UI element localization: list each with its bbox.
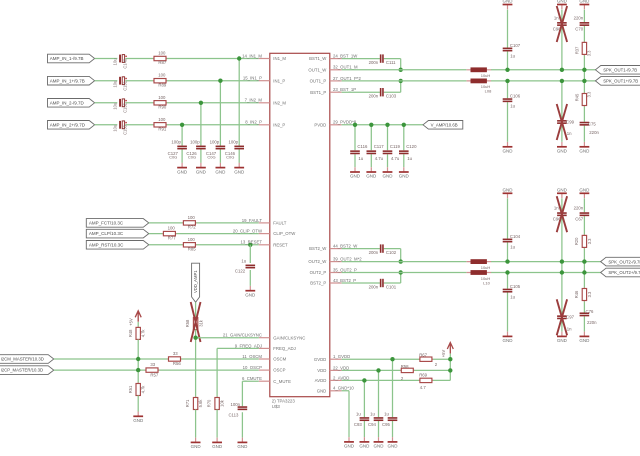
svg-text:I2CM_MASTER/10.3D: I2CM_MASTER/10.3D (1, 357, 44, 362)
svg-text:4.7u: 4.7u (375, 156, 384, 161)
svg-text:1u: 1u (510, 245, 515, 250)
pin 19_FAULT (242, 218, 287, 226)
svg-text:1u: 1u (407, 156, 412, 161)
svg-text:10u: 10u (113, 81, 118, 88)
svg-text:AMP_FCT/10.3C: AMP_FCT/10.3C (89, 221, 124, 226)
svg-text:AMP_IN_2-/9.7D: AMP_IN_2-/9.7D (50, 100, 85, 105)
wire C93 column (363, 380, 365, 437)
junction OUT2_P junction x584.4 (582, 270, 586, 274)
ground GND top ch1 x507.5 (503, 0, 514, 9)
svg-text:C101: C101 (386, 285, 397, 290)
ground GND top ch2 x584.4 (579, 187, 590, 198)
resistor R91 100 (153, 117, 167, 132)
svg-text:100p: 100p (190, 140, 200, 145)
svg-text:SPK_OUT2-/9.7D: SPK_OUT2-/9.7D (608, 259, 640, 264)
resistor R72 100 (182, 215, 196, 230)
svg-text:OUT1_W: OUT1_W (308, 67, 327, 72)
svg-text:BST2_W: BST2_W (309, 246, 327, 251)
ground GND under pin 4 (344, 437, 355, 449)
supply +5V arrow (I2C pullup) (128, 311, 141, 326)
svg-text:C119: C119 (390, 144, 401, 149)
svg-text:1u: 1u (358, 156, 363, 161)
svg-text:R37: R37 (575, 46, 580, 54)
svg-text:4.7: 4.7 (420, 385, 427, 390)
svg-text:C0G: C0G (188, 155, 196, 160)
resistor R48 4.7k (128, 326, 146, 340)
wire BST net C101 (342, 273, 401, 284)
ground GND under C113 (237, 438, 248, 450)
ground GND under C127 (177, 163, 188, 175)
capacitor C119 4.7u (383, 144, 401, 161)
wire AMP_IN_2+/9.7D (95, 125, 259, 163)
svg-text:15_IN1_P: 15_IN1_P (243, 76, 262, 81)
junction OSCM junction (136, 357, 140, 361)
svg-text:200n: 200n (369, 60, 379, 65)
pin 9_FREQ_ADJ (235, 343, 296, 351)
svg-text:100: 100 (158, 51, 166, 56)
wire VDD net (342, 369, 451, 371)
junction C101 junction (399, 270, 403, 274)
svg-text:AMP_IN_1+/9.7B: AMP_IN_1+/9.7B (50, 78, 85, 83)
svg-text:R48: R48 (128, 329, 133, 337)
resistor R77 100 (162, 226, 176, 241)
capacitor C146 100p (225, 140, 244, 160)
pin 4_GND*10 (317, 386, 355, 394)
svg-text:2: 2 (435, 362, 438, 367)
ground GND bottom ch2 x584.4 (579, 332, 590, 344)
pin 14_IN1_M (242, 53, 286, 61)
svg-text:OUT1_P: OUT1_P (310, 79, 327, 84)
junction OUT1_P junction x507.5 (505, 79, 509, 83)
pin 6_CMUTE (242, 376, 291, 384)
svg-text:+5V: +5V (441, 350, 446, 358)
ground GND under C117 (366, 167, 377, 179)
svg-text:C120: C120 (406, 144, 417, 149)
svg-text:C_MUTE: C_MUTE (273, 379, 291, 384)
capacitor C95 1u (382, 412, 397, 427)
svg-text:IN1_M: IN1_M (273, 56, 286, 61)
capacitor C93 1u (354, 412, 369, 427)
svg-text:R89: R89 (158, 82, 166, 87)
svg-text:AMP_IN_1-/9.7B: AMP_IN_1-/9.7B (50, 56, 84, 61)
svg-text:33: 33 (173, 351, 178, 356)
resistor R58 31k (DNP) (185, 317, 203, 331)
svg-text:IN2_P: IN2_P (273, 122, 285, 127)
svg-text:GND: GND (317, 388, 327, 393)
svg-text:1u: 1u (241, 258, 246, 263)
svg-text:C107: C107 (510, 43, 521, 48)
wire BST net C102 (342, 249, 401, 262)
svg-text:AMP_IN_2+/9.7D: AMP_IN_2+/9.7D (50, 122, 86, 127)
capacitor C152 10u (113, 99, 128, 113)
flag AMP_IN_2+/9.7D (48, 121, 95, 130)
wire C96 column (561, 198, 563, 272)
capacitor C107 1u (503, 43, 521, 58)
svg-text:C94: C94 (368, 422, 376, 427)
svg-text:FREQ_ADJ: FREQ_ADJ (273, 346, 295, 351)
svg-text:10u: 10u (113, 125, 118, 132)
svg-text:I2CP_MASTER/10.3D: I2CP_MASTER/10.3D (1, 368, 44, 373)
resistor R57 33 (145, 362, 159, 377)
wire GAIN net (196, 338, 259, 398)
svg-text:AVDD: AVDD (315, 378, 327, 383)
junction PVDD junction C116 (353, 123, 357, 127)
ground GND under R70 (212, 438, 223, 450)
junction OUT2_M junction x561.9 (560, 259, 564, 263)
DNP cross over C96 (557, 196, 567, 232)
svg-text:C116: C116 (357, 144, 368, 149)
wire C105 column (507, 273, 509, 332)
capacitor C106 1u (503, 93, 521, 108)
wire C97 column (561, 273, 563, 332)
pin 32_OUT1_M (308, 65, 358, 73)
pin 35_OUT2_P (310, 267, 357, 275)
junction OUT1_P junction x584.4 (582, 79, 586, 83)
junction PVDD junction C120 (402, 123, 406, 127)
svg-text:C105: C105 (510, 284, 521, 289)
svg-text:220n: 220n (587, 320, 597, 325)
svg-text:43_BST2_P: 43_BST2_P (333, 278, 356, 283)
svg-text:R85: R85 (188, 247, 196, 252)
pin 2_AVDD (315, 375, 350, 383)
svg-text:AMP_CLP/10.3C: AMP_CLP/10.3C (89, 231, 124, 236)
svg-text:220n: 220n (574, 206, 584, 211)
wire OSCM (54, 358, 259, 360)
capacitor C122 1u (235, 258, 255, 273)
junction RESET junction (248, 243, 252, 247)
svg-text:IN2_M: IN2_M (273, 100, 286, 105)
capacitor C113 100n (228, 402, 247, 417)
capacitor C147 100p (206, 140, 225, 160)
svg-text:5.6k: 5.6k (198, 399, 203, 408)
wire R58 to GAIN net (195, 329, 197, 337)
svg-text:10_OSCP: 10_OSCP (243, 365, 262, 370)
wire AVDD net (342, 379, 451, 381)
svg-text:R46: R46 (574, 290, 579, 298)
wire OUT2_P (342, 272, 601, 274)
wire C95 column (392, 359, 394, 437)
wire C104 column (507, 198, 509, 261)
wire C70-R37 column (583, 10, 585, 142)
resistor R71 5.6k (185, 397, 203, 411)
svg-text:4.7k: 4.7k (141, 385, 146, 394)
pin 15_IN1_P (243, 76, 286, 84)
svg-text:IN1_P: IN1_P (273, 78, 285, 83)
svg-text:R58: R58 (401, 364, 409, 369)
ground GND top ch2 x507.5 (503, 187, 514, 198)
svg-text:C113: C113 (228, 413, 239, 418)
junction C111 junction (399, 68, 403, 72)
svg-text:V_AMP/10.6B: V_AMP/10.6B (431, 123, 458, 128)
capacitor C67 220n (574, 206, 590, 222)
capacitor C98 1n (DNP) (553, 15, 567, 31)
supply +5V arrow (VDD rail) (441, 343, 453, 358)
svg-text:R70: R70 (207, 399, 212, 407)
wire R71 to GND (195, 409, 197, 437)
wire GVDD net (342, 358, 451, 360)
svg-text:C148: C148 (122, 58, 127, 69)
svg-text:C97: C97 (566, 315, 574, 320)
svg-text:1u: 1u (384, 412, 389, 417)
resistor R37 3.3 (575, 41, 592, 56)
wire AMP_FCT/10.3C (149, 222, 259, 224)
capacitor C70 220n (574, 15, 590, 31)
resistor R45 3.3 (575, 91, 592, 107)
svg-text:R87: R87 (158, 60, 166, 65)
svg-text:R51: R51 (128, 385, 133, 393)
svg-text:VDD: VDD (317, 368, 326, 373)
svg-text:C0G: C0G (226, 155, 234, 160)
resistor R51 4.7k (128, 383, 146, 397)
wire C107 column (507, 10, 509, 70)
svg-text:100p: 100p (210, 140, 220, 145)
flag AMP_RST/10.3C (86, 241, 149, 250)
capacitor C117 4.7u (367, 144, 385, 161)
svg-text:3.3: 3.3 (587, 50, 592, 56)
resistor R69 4.7 (419, 373, 433, 391)
capacitor C120 1u (399, 144, 417, 161)
svg-text:CLIP_OTW: CLIP_OTW (273, 231, 296, 236)
svg-text:C153: C153 (122, 124, 127, 135)
svg-text:1_GVDD: 1_GVDD (333, 354, 350, 359)
wire C94 column (378, 370, 380, 437)
junction OUT2_P junction x561.9 (560, 270, 564, 274)
wire R48-R51 vertical (137, 339, 139, 383)
junction OUT1_M junction x507.5 (505, 68, 509, 72)
pin 27_OUT1_P*2 (310, 76, 362, 84)
flag SPK_OUT2-/9.7D (601, 257, 640, 266)
pin 21_GAIN/CLKSYNC (223, 333, 305, 341)
capacitor C99 1n (DNP) (557, 119, 574, 136)
wire RESET to C122 (249, 245, 251, 286)
svg-text:35_OUT2_P: 35_OUT2_P (333, 267, 357, 272)
ground GND top ch2 x561.9 (557, 187, 568, 198)
svg-text:220n: 220n (574, 15, 584, 20)
wire CMUTE net (242, 381, 258, 437)
svg-text:8_IN2_P: 8_IN2_P (245, 120, 262, 125)
svg-text:C102: C102 (386, 250, 397, 255)
svg-text:1n: 1n (554, 15, 559, 20)
capacitor C127 100p (168, 140, 187, 160)
svg-text:100: 100 (168, 226, 176, 231)
svg-text:33: 33 (150, 362, 155, 367)
svg-text:RESET: RESET (273, 242, 288, 247)
wire OUT2_M (342, 261, 601, 263)
pin 20_CLIP_OTW (233, 229, 296, 237)
junction OUT1_M junction x584.4 (582, 68, 586, 72)
pin 24_BST_1W (309, 54, 358, 62)
junction C95 junction (390, 357, 394, 361)
pin 1_GVDD (314, 354, 350, 362)
svg-text:21_GAIN/CLKSYNC: 21_GAIN/CLKSYNC (223, 333, 262, 338)
pin 23_BST_1P (310, 87, 356, 95)
wire AMP_IN_1-/9.7B (95, 59, 259, 163)
junction C93 junction (362, 378, 366, 382)
ground GND top ch1 x584.4 (579, 0, 590, 9)
junction C103 junction (399, 79, 403, 83)
svg-text:11_OSCM: 11_OSCM (242, 354, 262, 359)
ground GND under C120 (399, 167, 410, 179)
svg-text:100n: 100n (230, 402, 240, 407)
flag VDD_AMP1 (192, 263, 200, 302)
capacitor C94 1u (368, 412, 383, 427)
capacitor C151 10u (113, 77, 128, 91)
svg-text:10u: 10u (113, 58, 118, 65)
wire OSCP (54, 369, 259, 371)
pin 22_VDD (317, 365, 349, 373)
svg-text:C111: C111 (386, 60, 396, 65)
svg-text:4_GND*10: 4_GND*10 (333, 386, 354, 391)
junction OUT1_P junction x561.9 (560, 79, 564, 83)
flag AMP_CLP/10.3C (86, 229, 149, 238)
svg-text:C106: C106 (510, 93, 521, 98)
resistor R20 3.3 (574, 234, 592, 248)
flag AMP_IN_1-/9.7B (48, 54, 95, 63)
svg-text:+5V: +5V (128, 318, 133, 326)
capacitor C76 220n (580, 309, 598, 325)
wire C99 column (561, 81, 563, 142)
svg-text:C70: C70 (575, 26, 583, 31)
svg-text:3.3: 3.3 (587, 91, 592, 97)
svg-text:200n: 200n (369, 285, 379, 290)
DNP cross over C97 (557, 299, 567, 335)
junction VDD +5V junction (448, 368, 452, 372)
wire +5V rail vertical (449, 354, 451, 381)
svg-text:OSCM: OSCM (273, 357, 286, 362)
ground GND bottom ch1 x507.5 (503, 142, 514, 154)
inductor L08 10uH (467, 79, 493, 94)
svg-text:U$3: U$3 (272, 404, 281, 409)
ground GND under C126 (196, 163, 207, 175)
flag SPK_OUT1+/9.7B (595, 77, 640, 86)
DNP cross over C99 (557, 104, 567, 140)
svg-text:R56: R56 (173, 361, 181, 366)
ground GND under C94 (374, 437, 385, 449)
svg-text:R20: R20 (574, 237, 579, 245)
svg-text:C0G: C0G (207, 155, 215, 160)
svg-text:GAIN/CLKSYNC: GAIN/CLKSYNC (273, 335, 305, 340)
svg-text:1u: 1u (510, 295, 515, 300)
junction AMP_IN_2-/9.7D junction (199, 101, 203, 105)
resistor R56 33 (168, 351, 182, 366)
svg-text:10uH: 10uH (481, 265, 491, 270)
svg-text:100: 100 (188, 237, 196, 242)
pin 43_BST2_P (310, 278, 356, 286)
junction OUT1_M junction x561.9 (560, 68, 564, 72)
ground GND bottom ch1 x561.9 (557, 142, 568, 154)
junction GVDD +5V junction (448, 357, 452, 361)
svg-text:BST2_P: BST2_P (310, 281, 326, 286)
ground GND top ch1 x561.9 (557, 0, 568, 9)
svg-text:1n: 1n (567, 327, 572, 332)
svg-text:10u: 10u (113, 103, 118, 110)
ground GND under C147 (215, 163, 226, 175)
wire VDD_AMP1 to R58 (195, 302, 197, 317)
capacitor C75 220n (580, 122, 600, 135)
svg-text:27_OUT1_P*2: 27_OUT1_P*2 (333, 76, 362, 81)
svg-text:L08: L08 (485, 89, 492, 94)
pin 13_RESET (241, 240, 289, 248)
svg-text:1u: 1u (356, 412, 361, 417)
svg-text:2_AVDD: 2_AVDD (333, 375, 349, 380)
svg-text:100: 100 (158, 117, 166, 122)
pin 29_PVDD*8 (314, 120, 356, 128)
svg-text:32_OUT1_M: 32_OUT1_M (333, 65, 358, 70)
resistor R67 2 (419, 352, 438, 367)
wire C67-R20 column (583, 198, 585, 331)
ground GND under C95 (388, 437, 399, 449)
wire AMP_RST/10.3C (149, 244, 259, 246)
pin 44_BST2_W (309, 244, 358, 252)
flag AMP_FCT/10.3C (86, 219, 149, 228)
svg-text:100p: 100p (228, 140, 238, 145)
junction AMP_IN_1+/9.7B junction (218, 79, 222, 83)
flag SPK_OUT2+/9.7D (601, 268, 640, 277)
capacitor C97 1n (DNP) (557, 315, 574, 332)
wire C98 column (561, 10, 563, 70)
svg-text:R77: R77 (168, 235, 176, 240)
resistor R89 100 (153, 73, 167, 88)
capacitor C116 1u (350, 144, 368, 161)
svg-text:1u: 1u (510, 54, 515, 59)
capacitor C103 200n (369, 88, 397, 99)
capacitor C148 10u (113, 55, 128, 69)
capacitor C101 200n (369, 279, 397, 290)
svg-text:220n: 220n (589, 130, 599, 135)
capacitor C96 1n (DNP) (553, 206, 567, 222)
svg-text:C104: C104 (510, 234, 521, 239)
svg-text:9_FREQ_ADJ: 9_FREQ_ADJ (235, 343, 262, 348)
svg-text:3.3: 3.3 (587, 238, 592, 244)
svg-text:13_RESET: 13_RESET (241, 240, 263, 245)
svg-text:VDD_AMP1: VDD_AMP1 (193, 270, 198, 293)
wire BST net C111 (342, 59, 401, 70)
svg-text:C122: C122 (235, 269, 246, 274)
resistor R85 100 (182, 237, 196, 252)
svg-text:22_VDD: 22_VDD (333, 365, 349, 370)
label U$3 TPA3223 (272, 399, 296, 409)
junction PVDD junction C117 (369, 123, 373, 127)
resistor R46 3.3 (574, 288, 592, 302)
pin 39_OUT2_M*2 (308, 257, 362, 265)
flag SPK_OUT1-/9.7B (595, 66, 640, 75)
wire AMP_IN_1+/9.7B (95, 81, 259, 163)
wire AMP_IN_2-/9.7D (95, 103, 259, 163)
pin 7_IN2_M (245, 98, 287, 106)
junction C102 junction (399, 259, 403, 263)
svg-text:C151: C151 (122, 80, 127, 91)
ground GND under R51 (133, 412, 144, 424)
resistor R58 2 (400, 364, 414, 381)
svg-text:R67: R67 (419, 352, 427, 357)
ground GND under C146 (234, 163, 245, 175)
wire R51 to GND (137, 395, 139, 411)
ground GND under C116 (350, 167, 361, 179)
flag AMP_IN_2-/9.7D (48, 99, 95, 108)
wire OUT1_M (342, 69, 596, 71)
flag V_AMP/10.6B (423, 121, 463, 130)
svg-text:SPK_OUT2+/9.7D: SPK_OUT2+/9.7D (608, 270, 640, 275)
junction AMP_IN_2+/9.7D junction (180, 123, 184, 127)
svg-text:R57: R57 (150, 372, 158, 377)
ground GND bottom ch1 x584.4 (579, 142, 590, 154)
junction C94 junction (376, 368, 380, 372)
svg-text:7_IN2_M: 7_IN2_M (245, 98, 263, 103)
svg-text:20_CLIP_OTW: 20_CLIP_OTW (233, 229, 263, 234)
junction OUT2_M junction x584.4 (582, 259, 586, 263)
ground GND bottom ch2 x561.9 (557, 332, 568, 344)
pin 8_IN2_P (245, 120, 285, 128)
